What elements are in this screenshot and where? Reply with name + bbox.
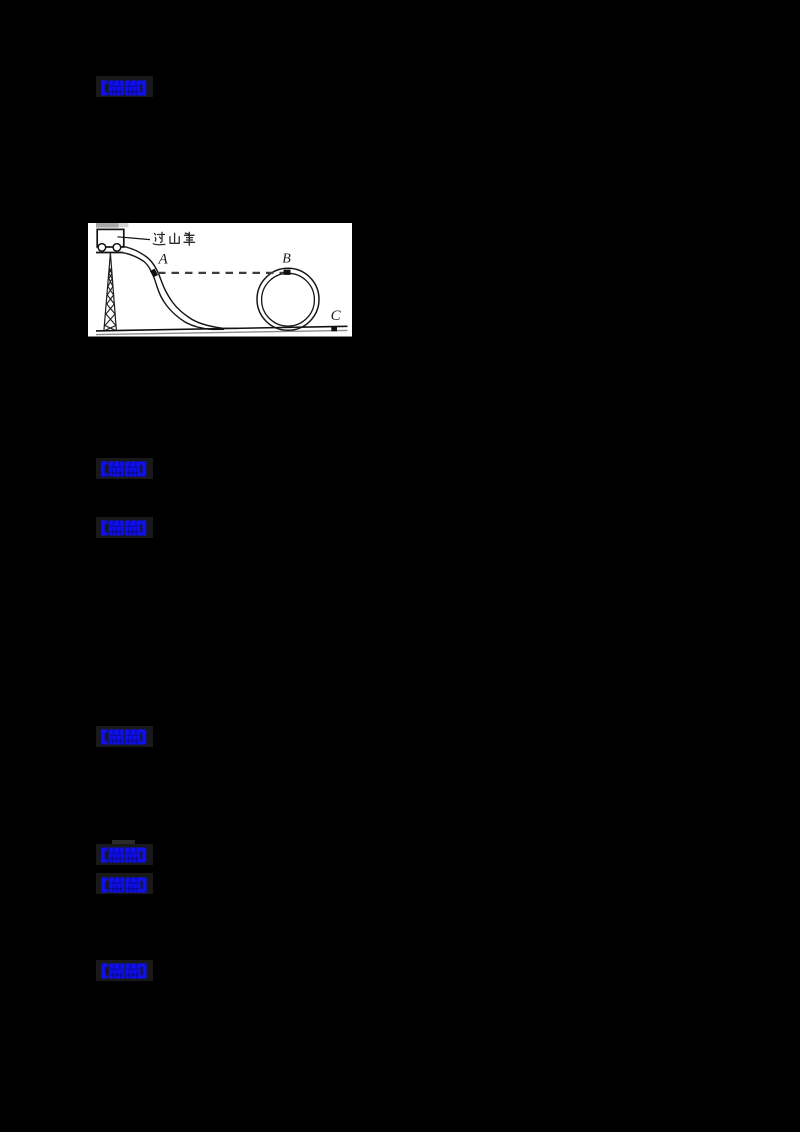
grey strip top [96, 223, 119, 228]
svg-text:C: C [331, 308, 342, 324]
山 [170, 233, 179, 243]
label 4 【答案】 [96, 726, 153, 747]
dashed line A to B [158, 272, 284, 274]
svg-text:A: A [158, 252, 169, 268]
车 [184, 232, 195, 245]
white panel [88, 223, 352, 337]
ground track line (black) [96, 326, 348, 331]
hidden defs: blue pseudo-CJK label 【答案】 [0, 0, 1, 1]
tower lattice [104, 268, 116, 331]
loop outer circle [257, 268, 319, 330]
过 [153, 232, 165, 244]
dot C [331, 327, 337, 331]
cart body [97, 229, 124, 247]
label 6 【解析】 [96, 873, 153, 894]
svg-text:B: B [282, 252, 291, 267]
figure: roller coaster [88, 223, 352, 337]
label 7 【答案】 [96, 960, 153, 981]
track slope left/lower rail [123, 253, 225, 330]
label 3 【解析】 [96, 517, 153, 538]
label 5 【答案】 [96, 844, 153, 865]
dot B [284, 270, 291, 275]
platform line [96, 252, 123, 254]
text 过山车 (hand strokes) [153, 232, 194, 245]
tower rails [104, 253, 117, 331]
dot A [150, 269, 158, 278]
label 1 【答案】 [96, 76, 153, 97]
leader line to cart [118, 237, 151, 240]
loop inner circle [262, 273, 315, 326]
small grey blob above label 5 [112, 840, 135, 847]
cart wheels [98, 244, 106, 252]
ground line (grey) [96, 330, 348, 334]
track slope right/upper rail [122, 246, 238, 328]
label 2 【答案】 [96, 458, 153, 479]
